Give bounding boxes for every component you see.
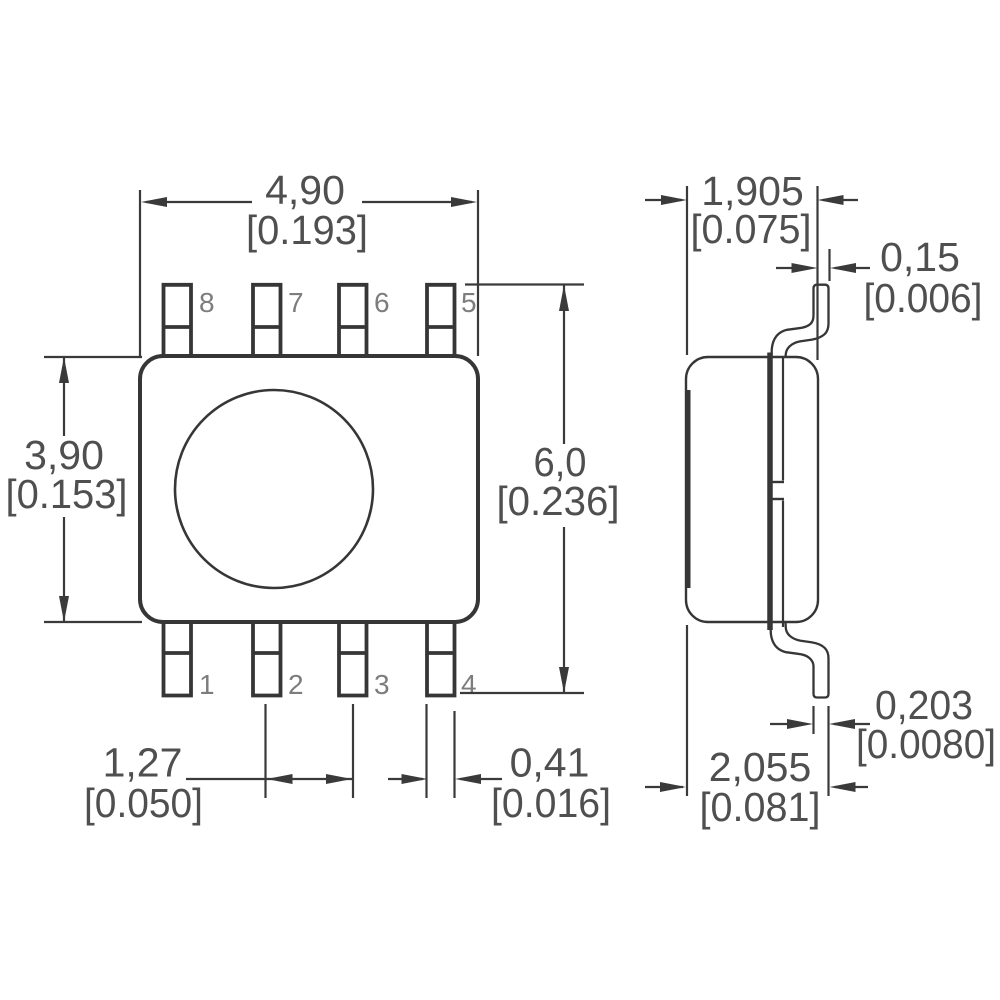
svg-text:[0.006]: [0.006] xyxy=(864,275,983,321)
svg-text:[0.075]: [0.075] xyxy=(691,206,812,252)
svg-text:0,41: 0,41 xyxy=(510,740,590,786)
svg-text:[0.050]: [0.050] xyxy=(84,780,203,826)
svg-text:[0.193]: [0.193] xyxy=(246,207,368,253)
svg-text:6: 6 xyxy=(374,287,390,318)
svg-text:[0.081]: [0.081] xyxy=(700,784,821,830)
svg-text:[0.153]: [0.153] xyxy=(6,471,128,517)
svg-text:1: 1 xyxy=(199,669,215,700)
svg-text:2: 2 xyxy=(288,669,304,700)
svg-text:5: 5 xyxy=(461,287,477,318)
svg-text:4: 4 xyxy=(461,669,477,700)
svg-text:3: 3 xyxy=(374,669,390,700)
svg-text:1,27: 1,27 xyxy=(103,740,183,786)
svg-text:[0.0080]: [0.0080] xyxy=(856,721,996,767)
svg-text:7: 7 xyxy=(288,287,304,318)
svg-text:[0.016]: [0.016] xyxy=(491,780,611,826)
svg-text:8: 8 xyxy=(199,287,215,318)
svg-text:[0.236]: [0.236] xyxy=(497,478,620,524)
svg-text:0,15: 0,15 xyxy=(880,234,960,280)
